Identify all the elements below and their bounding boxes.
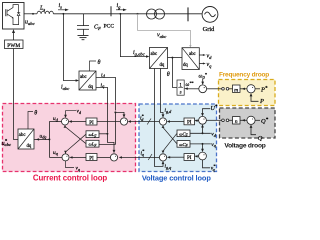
sum circle i_q* out <box>159 154 166 161</box>
svg-text:vabc: vabc <box>157 33 166 40</box>
sum circle u_d <box>62 118 69 125</box>
i_d* reference wire <box>130 121 160 123</box>
svg-text:CF: CF <box>94 25 101 32</box>
svg-text:θ: θ <box>98 60 101 66</box>
svg-text:vd: vd <box>207 54 213 61</box>
grid bus bar <box>187 7 189 21</box>
dq/abc block (modulation) <box>18 129 34 149</box>
abc/dq block (voltage) <box>182 48 199 70</box>
u_d wire <box>49 121 61 123</box>
slash i_q* <box>148 154 152 160</box>
integrator 1/s block <box>177 80 184 95</box>
U* input L-wire <box>203 109 211 115</box>
summing node volt droop <box>247 116 255 124</box>
svg-text:PI: PI <box>89 156 94 161</box>
wire omega** into 1/s <box>187 88 199 90</box>
voltage droop: switch contacts <box>222 119 229 122</box>
abc/dq block (current meas) <box>79 71 96 90</box>
wire U sum to PI vd <box>195 119 198 121</box>
PCC measurement bar <box>110 6 112 16</box>
svg-text:dq: dq <box>27 144 32 149</box>
node i_g tap <box>119 13 121 15</box>
wire i_g,abc tap down <box>120 14 147 57</box>
svg-text:Voltage droop: Voltage droop <box>224 142 265 149</box>
omega_0* input <box>202 79 204 83</box>
i_d feedback into error sum <box>114 111 116 113</box>
omega L_F box bottom <box>86 140 99 148</box>
wire U circle to voltage droop <box>206 119 221 121</box>
svg-text:uq: uq <box>53 150 58 156</box>
Q input L-wire <box>251 126 256 134</box>
theta stub into block <box>90 61 97 71</box>
wire i_q out <box>96 87 107 132</box>
svg-text:PWM: PWM <box>7 43 20 49</box>
sum circle i_d* out <box>159 118 166 125</box>
i_g,d feedforward <box>160 69 163 117</box>
svg-text:dq: dq <box>88 85 93 90</box>
svg-text:PI: PI <box>89 121 94 126</box>
sum circle u_q <box>62 154 69 161</box>
omega C_F box bottom <box>177 141 190 148</box>
svg-text:Ls: Ls <box>39 6 45 13</box>
wire v_abc (gray) <box>138 14 191 47</box>
PWM box <box>5 40 24 49</box>
svg-text:Frequency droop: Frequency droop <box>219 72 269 79</box>
IGBT + diode inside inverter <box>6 5 21 25</box>
PI box (d current) <box>86 118 97 126</box>
summing node U (voltage ref) <box>199 116 207 124</box>
u_dq bus <box>34 138 49 140</box>
svg-text:abc: abc <box>189 52 196 57</box>
i_q feedback route <box>106 133 108 135</box>
svg-text:uabc: uabc <box>25 20 35 27</box>
wire PI to sum (arrow) <box>71 121 87 123</box>
v_q output arrow <box>199 63 204 65</box>
P* stub <box>255 88 260 90</box>
svg-text:m: m <box>234 87 238 93</box>
u_q wire <box>49 156 62 158</box>
v_d feedforward stub <box>66 111 77 117</box>
node v_abc tap <box>137 13 139 15</box>
svg-text:vq: vq <box>207 62 213 69</box>
current control loop box (pink) <box>3 104 136 172</box>
droop gain m box <box>233 85 241 93</box>
wire PWM to inverter (arrow up) <box>12 29 15 40</box>
svg-text:Grid: Grid <box>203 26 216 33</box>
svg-text:dq: dq <box>183 63 188 68</box>
theta wire from 1/s <box>172 58 177 88</box>
i_g,q feedforward <box>154 69 163 167</box>
svg-text:s: s <box>180 90 182 95</box>
theta stub into dq/abc <box>28 112 33 130</box>
svg-text:θ: θ <box>34 110 37 116</box>
node u_abc <box>32 13 34 15</box>
v_d measurement stub <box>190 132 211 134</box>
wire m to sum <box>240 88 247 90</box>
cross coupling wires <box>66 134 87 153</box>
svg-text:θ: θ <box>167 72 170 78</box>
svg-text:ig,abc: ig,abc <box>133 50 145 58</box>
svg-text:ig,d: ig,d <box>165 108 173 115</box>
svg-text:Q: Q <box>258 135 263 142</box>
error sum circle i_d <box>120 118 127 125</box>
PI box (q current) <box>86 154 97 162</box>
PI box (vd) <box>184 118 195 126</box>
svg-text:abc: abc <box>80 75 87 80</box>
svg-text:Current control loop: Current control loop <box>33 174 108 183</box>
wire to n box <box>229 119 233 121</box>
wire to m box <box>229 88 233 90</box>
sum circle v_q row <box>199 152 207 160</box>
wire n to sum <box>240 119 247 121</box>
frequency droop box (yellow) <box>219 80 276 106</box>
omega L_F box top <box>86 131 99 139</box>
Q* stub <box>255 119 260 121</box>
wire i_d out <box>96 77 115 110</box>
transformer T1 <box>147 9 165 19</box>
P input L-wire <box>251 95 259 102</box>
v_q measurement stub <box>190 143 211 145</box>
svg-text:udq: udq <box>40 133 47 139</box>
slash i_d* <box>147 119 151 125</box>
summing node freq droop <box>247 85 255 93</box>
svg-text:is: is <box>59 3 63 10</box>
droop gain n box <box>233 117 241 125</box>
i_q* reference wire <box>121 156 160 158</box>
v_q* stub below <box>203 160 211 168</box>
svg-text:PI: PI <box>187 156 192 161</box>
svg-text:PI: PI <box>187 121 192 126</box>
svg-text:n: n <box>235 119 238 125</box>
svg-text:abc: abc <box>151 52 158 57</box>
wire u_abc* to PWM <box>13 49 18 140</box>
grid source G1 <box>202 6 218 22</box>
wire i_s,abc tap down to abc/dq <box>63 14 77 81</box>
voltage droop box (gray) <box>220 108 276 138</box>
wire: main AC bus <box>24 13 37 15</box>
svg-text:abc: abc <box>19 133 26 138</box>
summing node omega <box>199 85 207 93</box>
PI box (vq) <box>184 154 195 162</box>
svg-text:iabc: iabc <box>61 85 69 92</box>
error sum circle i_q <box>110 154 117 161</box>
svg-text:Voltage control loop: Voltage control loop <box>142 173 211 182</box>
wire error sums to PI <box>97 121 120 123</box>
inductor Ls <box>37 11 53 14</box>
wire omega circle to freq droop <box>207 88 222 90</box>
theta distribution wire between blocks <box>168 57 183 59</box>
svg-text:dq: dq <box>160 63 165 68</box>
ground under CF <box>78 36 89 40</box>
svg-text:vq: vq <box>76 166 81 172</box>
abc/dq block (grid current) <box>150 48 168 69</box>
svg-text:P: P <box>259 98 264 105</box>
wire after Ls <box>53 13 202 15</box>
v_q feedforward stub <box>66 161 75 168</box>
inverter U1 box <box>3 3 25 30</box>
v_d output arrow <box>199 54 204 56</box>
node i_s tap <box>62 13 64 15</box>
svg-text:PCC: PCC <box>104 24 115 30</box>
capacitor CF branch <box>77 14 89 36</box>
svg-text:vq: vq <box>211 142 216 148</box>
svg-text:ig,q: ig,q <box>165 164 172 171</box>
omega C_F box top <box>177 130 190 137</box>
cross coupling wires blue <box>163 133 177 152</box>
frequency droop: switch contacts <box>222 88 229 91</box>
voltage control loop box (blue) <box>139 104 217 172</box>
